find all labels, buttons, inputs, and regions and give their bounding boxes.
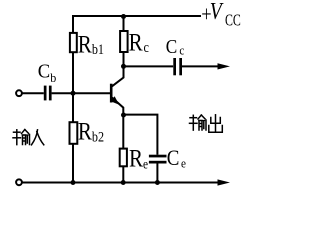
svg-text:Cc: Cc <box>166 36 185 59</box>
svg-text:Rb2: Rb2 <box>78 117 104 145</box>
svg-text:Cb: Cb <box>38 61 56 85</box>
svg-text:Re: Re <box>129 144 148 172</box>
svg-text:CC: CC <box>225 11 241 30</box>
svg-text:Ce: Ce <box>167 147 186 171</box>
svg-text:V: V <box>210 0 224 25</box>
svg-text:Rb1: Rb1 <box>78 30 104 58</box>
svg-text:Rc: Rc <box>129 28 149 56</box>
